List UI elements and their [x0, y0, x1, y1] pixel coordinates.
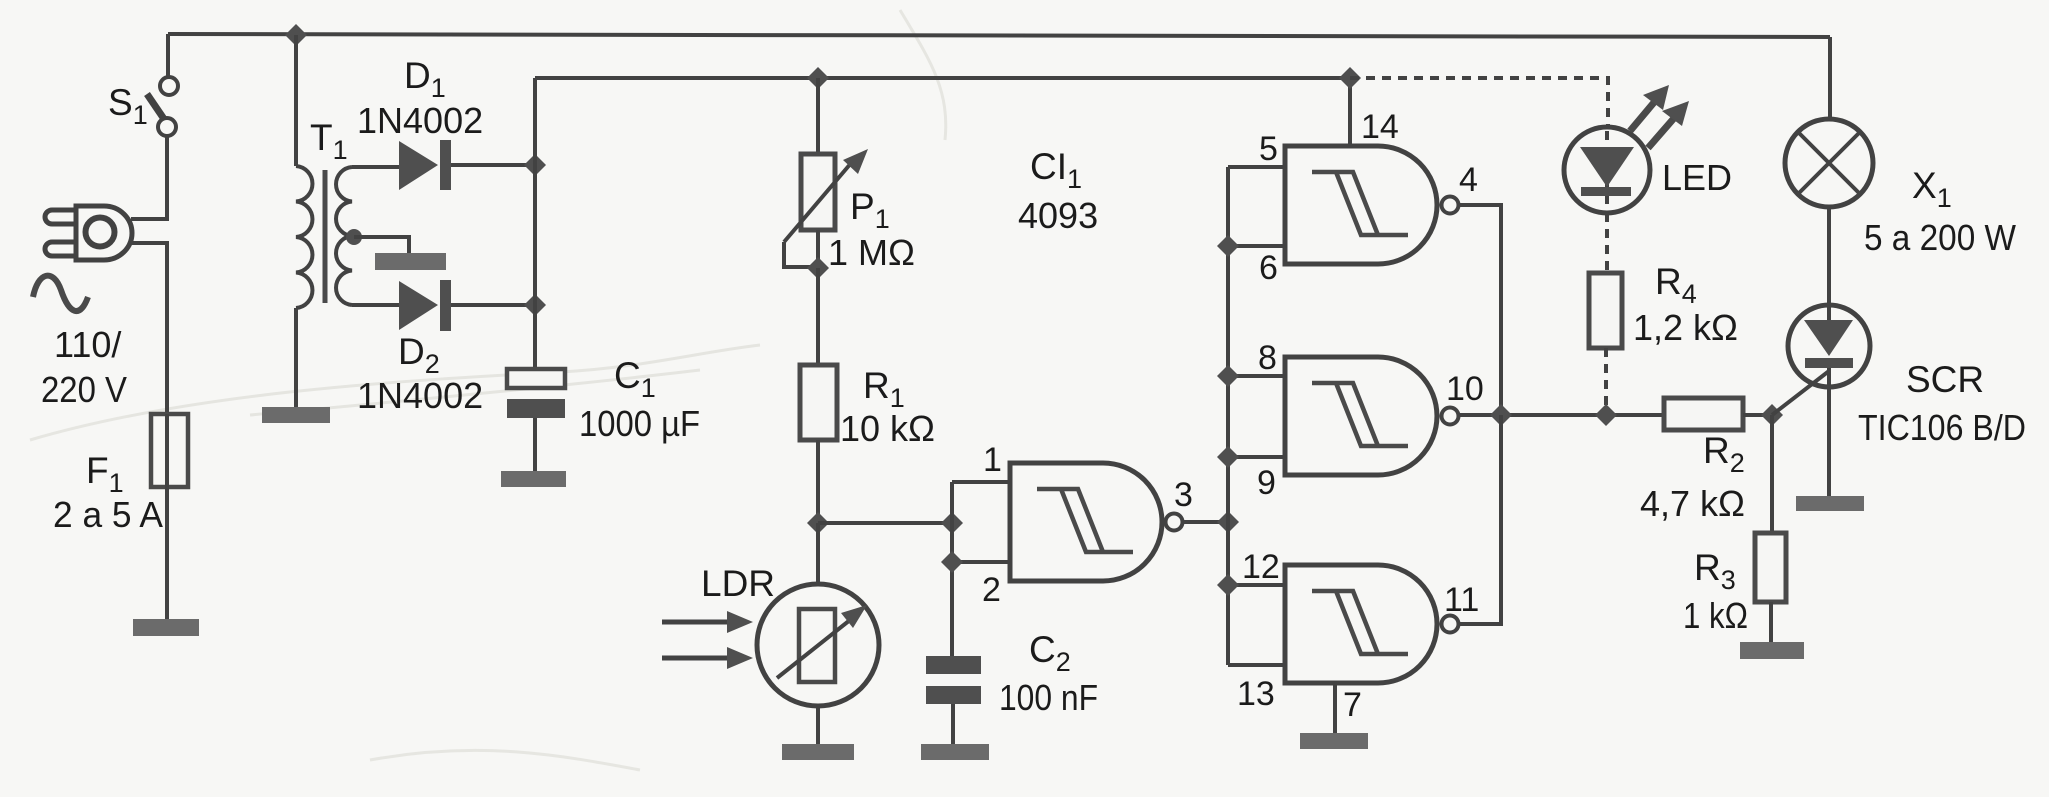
- wire: input 2 stub: [952, 560, 1010, 564]
- node: pin 9 junction: [1217, 446, 1239, 468]
- wire: rectifier bus down to C1: [533, 78, 537, 369]
- transformer core: [323, 170, 328, 303]
- svg-text:6: 6: [1259, 249, 1278, 287]
- svg-text:10 kΩ: 10 kΩ: [840, 408, 935, 449]
- wire: main output line to R2: [1459, 413, 1664, 417]
- svg-text:100 nF: 100 nF: [999, 677, 1098, 718]
- svg-text:13: 13: [1237, 675, 1275, 713]
- node: rail/P1 junction: [807, 67, 829, 89]
- transformer T1 primary winding: [296, 166, 312, 308]
- ground at centre tap: [375, 253, 446, 270]
- node: D1 junction: [524, 154, 546, 176]
- AC source sine symbol: [33, 276, 88, 311]
- wire: S1 to plug upper lead: [131, 136, 167, 219]
- light arrow 1: [662, 611, 753, 633]
- svg-text:5: 5: [1259, 130, 1278, 168]
- resistor R4: [1589, 273, 1622, 348]
- resistor R3: [1755, 533, 1786, 602]
- wire: R1 to node: [816, 440, 820, 523]
- node: pin 6 junction: [1217, 235, 1239, 257]
- capacitor C1: [507, 369, 565, 418]
- svg-text:2 a 5 A: 2 a 5 A: [53, 494, 163, 535]
- wire: gate output to bus: [1183, 520, 1228, 524]
- ground under SCR: [1796, 496, 1864, 511]
- node: input vertical junction: [941, 512, 963, 534]
- ground under LDR: [782, 744, 854, 760]
- diode D2: [399, 280, 451, 331]
- wire: top rail: [168, 34, 1830, 37]
- lamp X1: [1785, 119, 1873, 207]
- wire: pin 9 stub: [1228, 455, 1285, 459]
- ground under R3: [1740, 642, 1804, 659]
- ground pin 7: [1300, 733, 1368, 749]
- capacitor C2: [926, 656, 981, 704]
- NAND gate U1d pins 12,13,11: [1285, 565, 1459, 683]
- wire: C1 to ground: [533, 418, 537, 471]
- wire: R2 to SCR node: [1743, 413, 1772, 417]
- fuse F1: [151, 414, 188, 487]
- ground under T1 primary: [262, 407, 330, 423]
- wire: pin 6 stub: [1228, 244, 1285, 248]
- diode D1: [399, 140, 451, 190]
- wire: secondary top to D1: [352, 165, 399, 169]
- svg-text:1 kΩ: 1 kΩ: [1683, 595, 1748, 636]
- svg-text:1N4002: 1N4002: [357, 375, 483, 416]
- node: pin 8 junction: [1217, 365, 1239, 387]
- svg-text:3: 3: [1174, 476, 1193, 514]
- node: gate junction: [1761, 404, 1783, 426]
- NAND gate U1c pins 8,9,10: [1285, 357, 1459, 475]
- svg-text:11: 11: [1444, 581, 1479, 619]
- wire: primary bottom to ground: [294, 308, 298, 407]
- potentiometer P1: [784, 149, 868, 268]
- wire: node to R3: [1770, 415, 1774, 533]
- wire: rail to transformer primary: [294, 35, 298, 166]
- node: secondary centre tap: [346, 229, 362, 245]
- wire: secondary bottom to D2: [352, 303, 399, 307]
- svg-text:4093: 4093: [1018, 195, 1098, 236]
- wire: pin 12 stub: [1228, 583, 1285, 587]
- wire: D1 cathode to node: [451, 163, 535, 167]
- svg-text:LED: LED: [1662, 157, 1732, 198]
- wire: dashed LED to R4: [1605, 213, 1609, 273]
- node: input 2 junction: [941, 551, 963, 573]
- wire: Vcc rail: [535, 76, 1350, 80]
- LED arrow 2: [1648, 101, 1689, 148]
- node: R1/LDR junction: [807, 512, 829, 534]
- node: output 3 junction: [1217, 511, 1239, 533]
- svg-text:14: 14: [1361, 108, 1399, 146]
- svg-text:12: 12: [1242, 548, 1280, 586]
- wire: plug lower lead down to fuse: [131, 243, 167, 414]
- wire: pin 7 to ground: [1333, 683, 1337, 733]
- svg-text:LDR: LDR: [701, 563, 775, 604]
- wire: left drop to S1: [166, 34, 170, 77]
- LDR: [757, 523, 879, 706]
- wire: centre tap to ground: [354, 237, 409, 253]
- wire: gate D output up to bus: [1459, 415, 1501, 624]
- wire: dashed R4 to node: [1604, 348, 1608, 407]
- scan smudge marks: [30, 10, 946, 770]
- wire: through fuse to ground: [165, 414, 169, 619]
- wire: pin 8 stub: [1228, 374, 1285, 378]
- AC plug P: [45, 206, 132, 260]
- wire: R3 to ground: [1769, 602, 1773, 642]
- svg-text:8: 8: [1258, 339, 1277, 377]
- wire: gate input bus vertical: [950, 482, 954, 656]
- ground under F1: [133, 619, 199, 636]
- wire: pin 14 to rail: [1348, 78, 1352, 146]
- svg-text:220 V: 220 V: [41, 369, 127, 410]
- svg-text:9: 9: [1257, 464, 1276, 502]
- wire: node row to gate input: [818, 521, 952, 525]
- node: output cross junction: [1490, 404, 1512, 426]
- node: D2 junction: [524, 294, 546, 316]
- ground under C1: [501, 471, 566, 487]
- node: P1 bottom junction: [807, 257, 829, 279]
- node: rail/pin14 junction: [1339, 67, 1361, 89]
- svg-text:1,2 kΩ: 1,2 kΩ: [1633, 307, 1738, 348]
- wire: C2 to ground: [951, 704, 955, 744]
- light arrow 2: [662, 647, 753, 669]
- svg-text:1 MΩ: 1 MΩ: [828, 232, 915, 273]
- svg-text:1N4002: 1N4002: [357, 100, 483, 141]
- svg-text:110/: 110/: [54, 324, 121, 365]
- wire: rail to P1: [816, 78, 820, 154]
- wire: SCR cathode to ground: [1827, 368, 1831, 496]
- svg-text:5 a 200 W: 5 a 200 W: [1864, 217, 2016, 258]
- wire: dashed rail to LED: [1350, 78, 1608, 127]
- NAND gate U1a pins 1,2,3: [1010, 463, 1183, 581]
- node: pin 12 junction: [1217, 574, 1239, 596]
- resistor R1: [800, 365, 837, 440]
- transformer T1 secondary winding: [336, 167, 352, 305]
- svg-text:4,7 kΩ: 4,7 kΩ: [1640, 483, 1745, 524]
- SCR TIC106: [1788, 305, 1870, 387]
- wire: LDR to ground: [816, 706, 820, 744]
- wire: SCR gate diagonal: [1772, 371, 1829, 415]
- svg-text:7: 7: [1343, 686, 1362, 724]
- LED: [1564, 127, 1650, 213]
- node: R4 junction: [1595, 404, 1617, 426]
- NAND gate U1b pins 5,6,4: [1285, 146, 1459, 264]
- wire: gate B output: [1459, 205, 1501, 415]
- wire: gate input bus (right column): [1226, 167, 1230, 665]
- wire: input 1 stub: [952, 480, 1010, 484]
- svg-text:1000 µF: 1000 µF: [579, 403, 700, 444]
- svg-text:1: 1: [983, 441, 1002, 479]
- node: rail/transformer junction: [285, 24, 307, 46]
- LED arrow 1: [1630, 85, 1669, 131]
- wire: X1 to SCR: [1827, 207, 1831, 320]
- svg-text:4: 4: [1459, 161, 1478, 199]
- wire: P1 to R1: [816, 268, 820, 365]
- switch S1: [147, 77, 178, 136]
- svg-text:10: 10: [1446, 370, 1484, 408]
- svg-text:TIC106 B/D: TIC106 B/D: [1858, 407, 2026, 448]
- wire: pin 5 stub: [1228, 165, 1285, 169]
- svg-text:2: 2: [982, 571, 1001, 609]
- svg-text:SCR: SCR: [1906, 359, 1984, 400]
- wire: rail down to lamp X1: [1828, 37, 1832, 119]
- wire: pin 13 stub: [1228, 663, 1285, 667]
- resistor R2: [1664, 398, 1743, 430]
- ground under C2: [921, 744, 989, 760]
- wire: D2 cathode to node: [451, 303, 535, 307]
